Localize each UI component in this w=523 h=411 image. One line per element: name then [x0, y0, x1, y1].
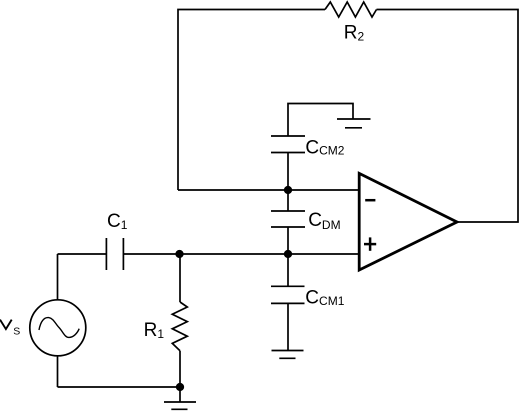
svg-text:S: S — [13, 326, 20, 338]
